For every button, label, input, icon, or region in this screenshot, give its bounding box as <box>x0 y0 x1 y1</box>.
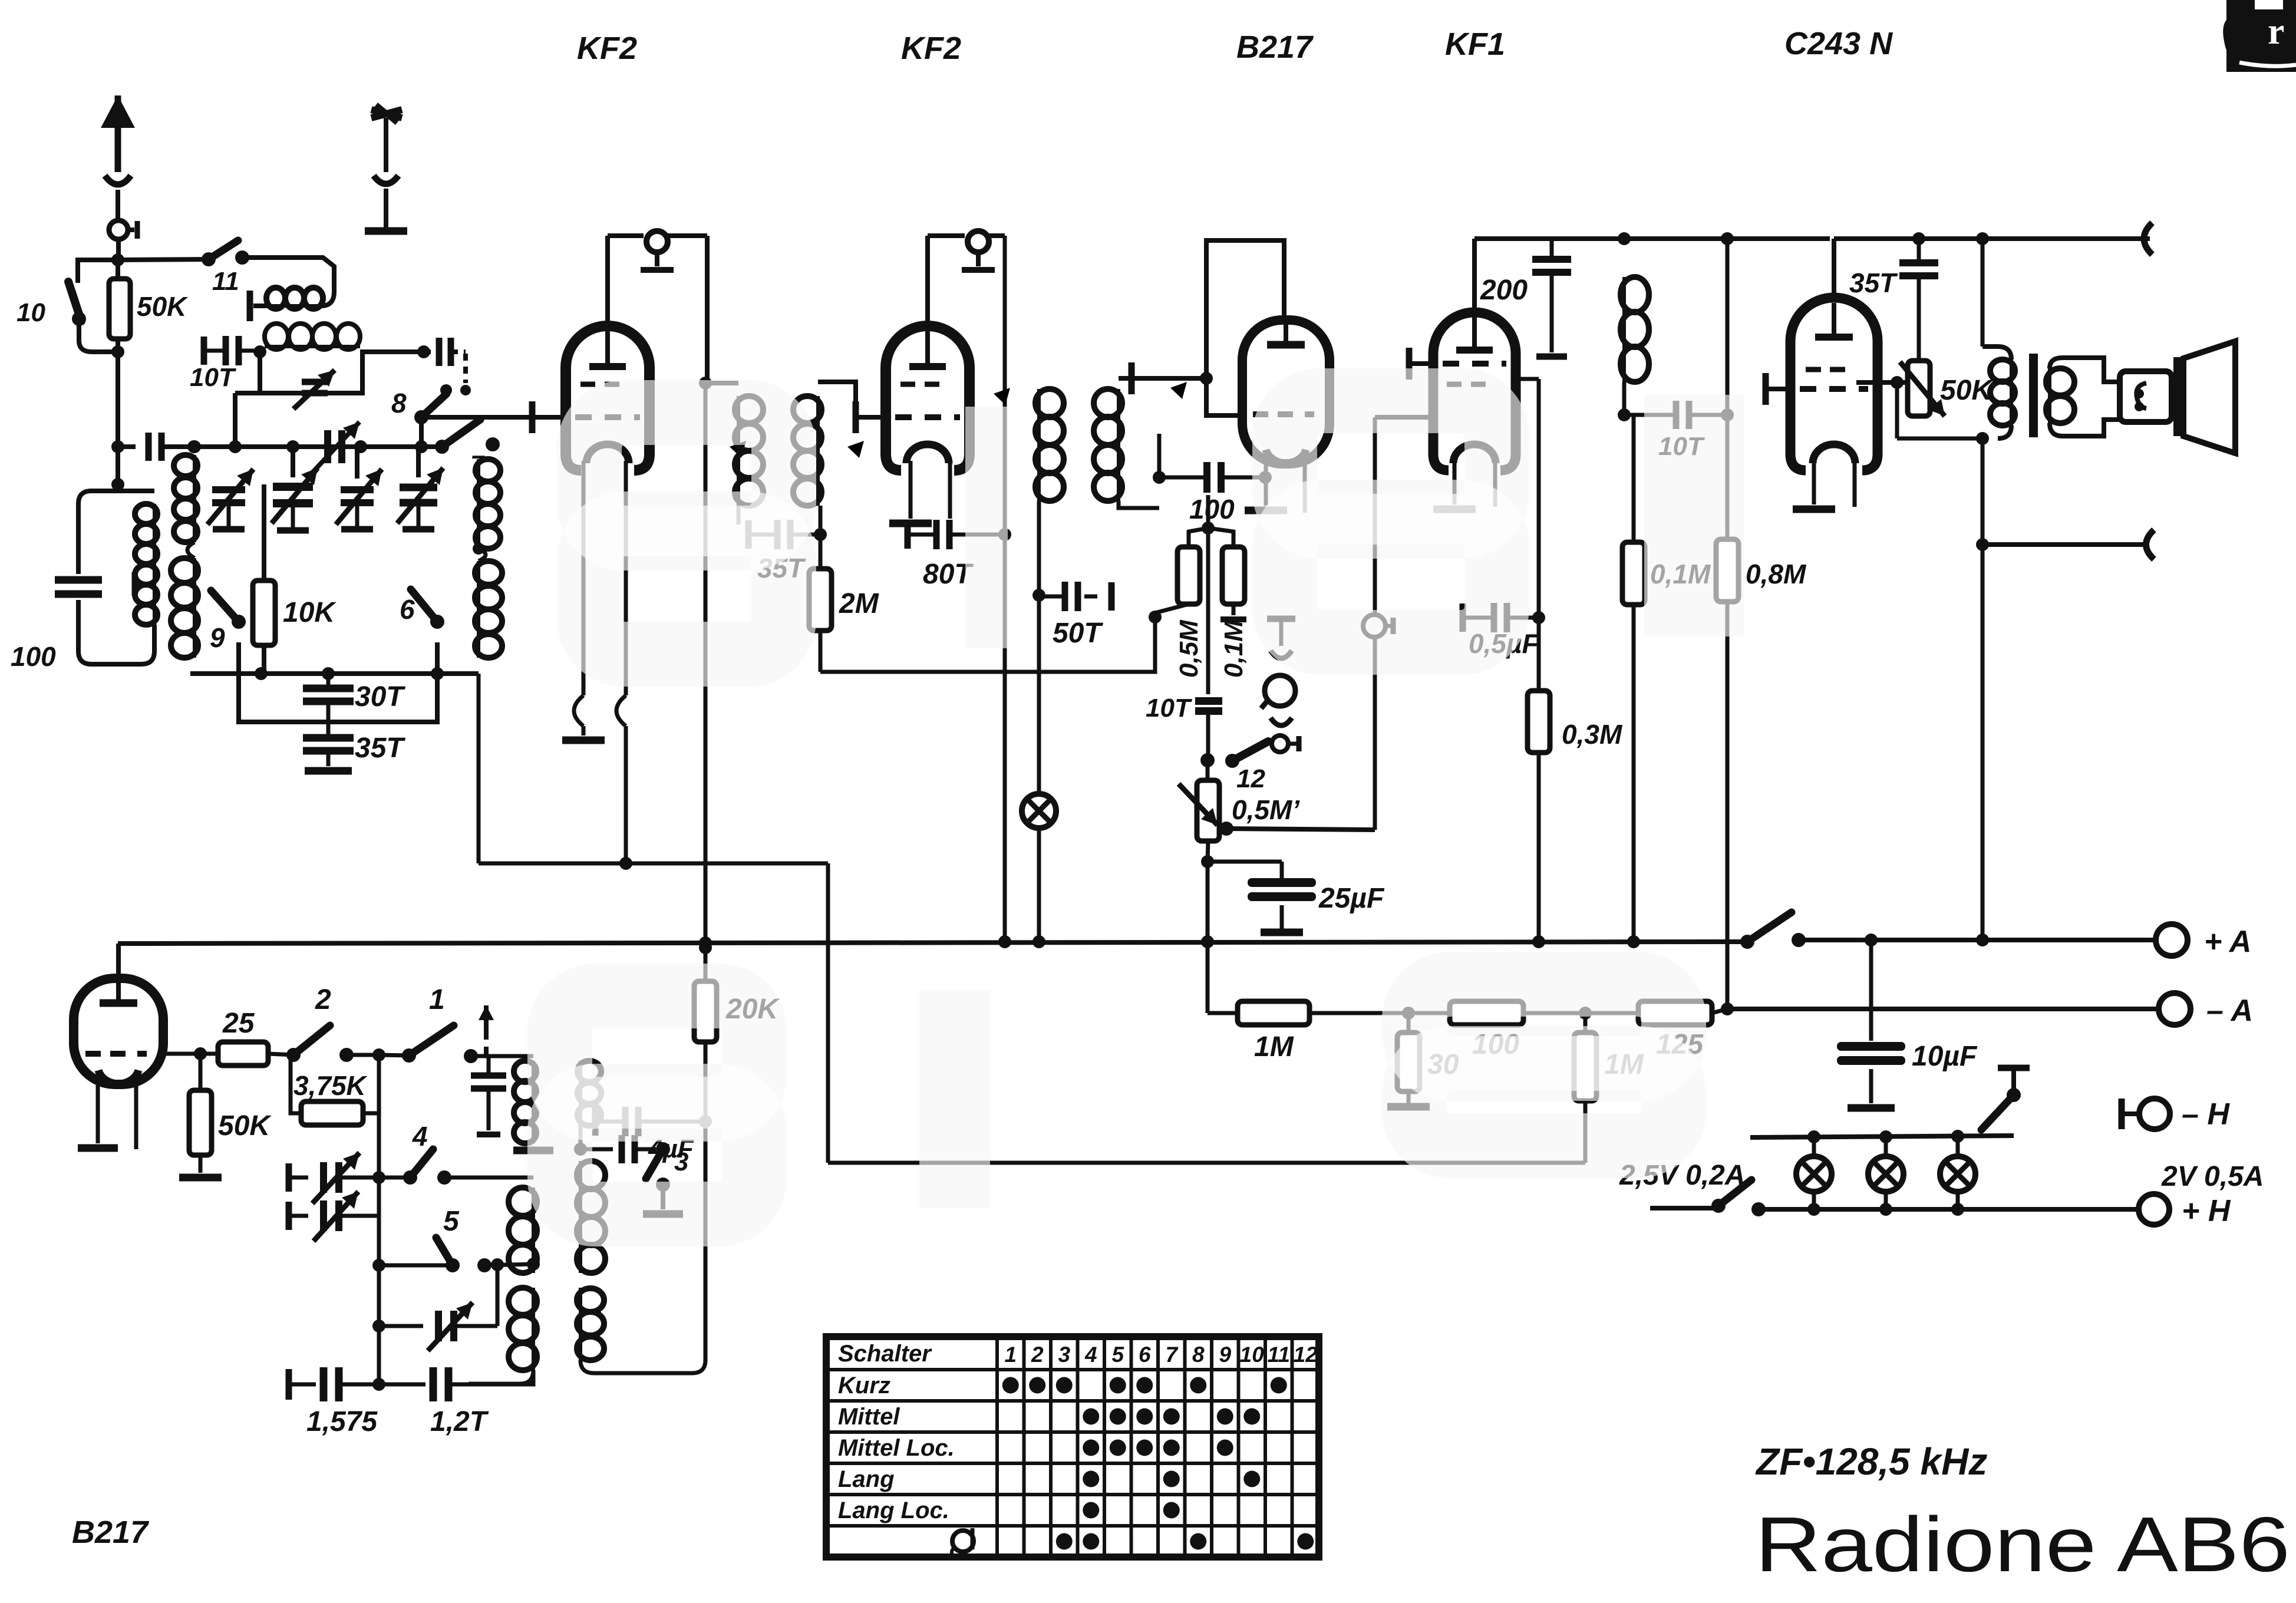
wire 10T junction drop <box>235 393 260 447</box>
IF2 trimmer right <box>1139 382 1187 434</box>
svg-text:Schalter: Schalter <box>838 1341 932 1367</box>
resistor 30 <box>1387 1013 1430 1107</box>
IF1 secondary coil <box>793 382 822 506</box>
capacitor 30T <box>303 674 354 722</box>
wire tube1 cap to IF1 <box>699 236 712 390</box>
svg-text:3,75K: 3,75K <box>293 1070 368 1101</box>
osc transformer right mid coil <box>577 1161 605 1273</box>
KF1 cathode pins <box>1433 461 1495 509</box>
tube B217 detector <box>1242 320 1330 464</box>
svg-text:11: 11 <box>1268 1343 1290 1367</box>
IF2 trimmer left <box>962 388 1010 440</box>
svg-text:35T: 35T <box>1849 268 1898 298</box>
capacitor 0,5uF <box>1463 603 1539 632</box>
osc transformer right low coil <box>577 1288 604 1373</box>
svg-text:0,3M: 0,3M <box>1562 719 1623 750</box>
wavetrap trimmer box <box>260 352 362 409</box>
switch 4 <box>379 1149 533 1185</box>
resistor 50K osc <box>179 1054 222 1177</box>
svg-text:9: 9 <box>210 622 225 653</box>
switch 11 <box>118 240 249 266</box>
wire IF2 primary to lamp rail <box>1037 595 1041 672</box>
IF1 primary coil <box>705 383 763 506</box>
terminal -H <box>2122 1099 2170 1129</box>
grid tbar tube1 <box>532 401 567 433</box>
svg-text:6: 6 <box>1139 1343 1151 1367</box>
wire IF1 secondary to tube2 grid <box>818 382 891 433</box>
osc transformer left mid coil <box>509 1188 540 1273</box>
node osc sec <box>574 1143 587 1156</box>
label 2M <box>839 588 879 619</box>
pilot lamp <box>1022 672 1056 942</box>
wire AVC line <box>479 674 828 1163</box>
svg-text:35T: 35T <box>355 733 405 764</box>
label 125 <box>1656 1029 1704 1060</box>
svg-text:KF2: KF2 <box>901 31 961 66</box>
osc tube legs <box>78 1080 136 1149</box>
svg-text:10: 10 <box>1240 1343 1265 1367</box>
svg-text:6: 6 <box>400 594 415 625</box>
svg-text:C243 N: C243 N <box>1784 26 1893 61</box>
wire 4uF tap <box>580 1122 595 1149</box>
right coil pair lower <box>473 543 502 658</box>
label 0,5M <box>1175 619 1203 678</box>
switch 12 <box>1200 741 1268 768</box>
switch 10 <box>68 260 118 352</box>
capacitor 4uF <box>595 1107 712 1136</box>
pilot lamps 2,5V <box>1796 1137 1975 1209</box>
label 35T <box>355 733 405 764</box>
node bus 497 <box>286 440 299 453</box>
svg-text:10K: 10K <box>283 597 337 628</box>
node bus 399 <box>229 440 242 453</box>
capacitor dashed coupling <box>424 338 471 395</box>
svg-text:10: 10 <box>17 298 45 327</box>
label 100 detector <box>1189 494 1235 525</box>
svg-text:3: 3 <box>674 1147 688 1176</box>
capacitor 80T <box>908 520 1001 549</box>
switch 5 <box>379 1238 533 1272</box>
node bus 329 <box>187 440 200 453</box>
wire +A bus right <box>1799 934 2156 946</box>
tube1 cathode pins <box>562 461 626 863</box>
wire IF2 secondary to B217 grid <box>1119 362 1213 394</box>
svg-text:Lang Loc.: Lang Loc. <box>838 1498 949 1523</box>
terminal -A <box>2159 993 2191 1025</box>
svg-text:50K: 50K <box>137 291 188 322</box>
svg-text:2: 2 <box>315 984 331 1015</box>
label 11 <box>212 267 239 296</box>
svg-text:2M: 2M <box>839 588 879 619</box>
KF1 inner dashes <box>1447 382 1486 387</box>
antenna tank tap <box>134 572 151 596</box>
svg-text:2: 2 <box>1031 1343 1044 1367</box>
wire switch9/6 loop <box>239 642 437 722</box>
B217 cathode pins <box>1245 454 1305 513</box>
antenna coupling jack <box>109 220 137 260</box>
svg-text:25: 25 <box>222 1008 255 1039</box>
svg-text:B217: B217 <box>1236 29 1314 65</box>
svg-text:8: 8 <box>391 388 407 418</box>
svg-text:3: 3 <box>1058 1343 1070 1367</box>
svg-text:10T: 10T <box>190 363 236 392</box>
capacitor osc block <box>471 1056 506 1134</box>
switch 6 <box>411 589 444 642</box>
wire osc to coil <box>471 1054 533 1058</box>
node 719 <box>417 345 430 358</box>
svg-text:5: 5 <box>1111 1343 1124 1367</box>
grid tbar C243N <box>1766 373 1792 405</box>
tube1 anode bar <box>589 331 626 367</box>
wire grid bus <box>194 444 442 449</box>
switch filament top <box>1981 1068 2030 1130</box>
wire C243N plate to pot <box>1856 376 1908 389</box>
svg-text:50K: 50K <box>218 1110 272 1142</box>
node wavetrap left <box>253 345 266 358</box>
svg-text:r: r <box>2268 10 2284 52</box>
switch 2 <box>286 1025 354 1062</box>
svg-text:Mittel: Mittel <box>838 1404 900 1430</box>
wire IF2 primary bottom <box>1032 501 1045 602</box>
svg-text:10µF: 10µF <box>1912 1041 1978 1072</box>
resistor 25 <box>200 1042 293 1066</box>
wire pot bottom rail <box>1897 382 1989 445</box>
svg-text:11: 11 <box>212 267 239 296</box>
resistor 50K antenna shunt <box>109 260 130 352</box>
node detector header <box>1202 495 1215 535</box>
label 35T output <box>1849 268 1898 298</box>
label 25 <box>222 1008 255 1039</box>
osc transformer right top coil <box>578 1061 601 1149</box>
potentiometer 0,5M volume <box>1179 760 1233 841</box>
node bus 715 <box>415 440 428 453</box>
label 30T <box>355 681 405 713</box>
svg-text:0,5M’: 0,5M’ <box>1232 794 1300 825</box>
label 0,8M <box>1746 559 1807 589</box>
switch 7 <box>435 420 500 454</box>
wire pot wiper out <box>1226 829 1375 830</box>
wire osc vertical <box>372 1055 385 1384</box>
wire output stage bus <box>1834 223 2152 255</box>
wire det out top <box>1375 415 1434 420</box>
capacitor 50T <box>1039 582 1111 611</box>
svg-text:ZF•128,5 kHz: ZF•128,5 kHz <box>1755 1440 1987 1483</box>
label +H <box>2182 1194 2231 1228</box>
resistor 100 bias <box>1408 1001 1585 1025</box>
svg-text:Radione AB6: Radione AB6 <box>1755 1501 2290 1588</box>
label 2V 0,5A <box>2161 1161 2264 1192</box>
tube2 inner dashes <box>900 382 939 387</box>
ground 35T <box>305 767 352 775</box>
terminal +H <box>2139 1194 2169 1225</box>
label 2 <box>315 984 331 1015</box>
potentiometer 50K tone <box>1900 361 1945 416</box>
ground terminal symbol Erde <box>365 105 407 231</box>
tube KF1 <box>1433 312 1516 470</box>
capacitor 35T <box>303 722 354 766</box>
svg-text:9: 9 <box>1219 1343 1231 1367</box>
tube2 cathode pins <box>889 461 950 523</box>
label 0,3M <box>1562 719 1623 750</box>
svg-text:1,2T: 1,2T <box>430 1406 489 1437</box>
svg-text:0,1M: 0,1M <box>1219 619 1248 678</box>
switch 8 <box>414 384 452 424</box>
resistor 2M <box>809 506 832 672</box>
svg-text:1: 1 <box>1004 1343 1017 1367</box>
antenna tank circuit frame <box>78 491 154 664</box>
node antenna junction <box>111 253 124 266</box>
wire +A bus <box>118 942 1747 944</box>
label KF2 (2nd IF tube) <box>901 31 961 66</box>
logo BTB top-right <box>2223 0 2296 72</box>
label C243N (output tube) <box>1784 26 1893 61</box>
svg-text:30T: 30T <box>355 681 405 713</box>
capacitor 100 detector <box>1159 462 1265 493</box>
label 1M vertical <box>1604 1049 1644 1080</box>
svg-text:100: 100 <box>1189 494 1235 525</box>
svg-text:1: 1 <box>429 984 445 1015</box>
svg-text:+ A: + A <box>2204 925 2251 959</box>
capacitor 10T wavetrap <box>204 336 258 365</box>
node tank top <box>111 478 124 491</box>
label 100 antenna <box>11 641 56 672</box>
RF coil lower left <box>171 542 198 674</box>
resistor 0,1M detector <box>1208 528 1246 619</box>
grid tbar KF1 <box>1409 348 1434 380</box>
svg-text:1M: 1M <box>1254 1031 1294 1063</box>
wavetrap coil <box>265 324 422 352</box>
wire osc grid <box>163 1047 207 1060</box>
wire detector divider <box>1206 528 1210 694</box>
capacitor 1,2T <box>379 1367 533 1401</box>
node osc 643 <box>347 1048 385 1061</box>
output transformer primary <box>1982 239 2015 438</box>
osc transformer left top coil <box>513 1061 553 1150</box>
label B217 bottom <box>72 1515 150 1550</box>
tube KF2 second <box>886 326 969 470</box>
capacitor 10uF <box>1837 940 1905 1108</box>
label 50K osc <box>218 1110 272 1142</box>
wire lamp rail bottom <box>1759 1203 1964 1216</box>
svg-text:50K: 50K <box>1940 375 1994 406</box>
svg-text:4: 4 <box>1084 1343 1097 1367</box>
resistor 1M bias <box>1208 1001 1408 1025</box>
resistor 0,3M <box>1528 618 1550 942</box>
switch position table Schalter <box>826 1337 1319 1557</box>
wire KF1 screen drop <box>1519 379 1545 624</box>
label 200 <box>1480 275 1528 306</box>
label 12 <box>1236 764 1265 793</box>
label 1,2T <box>430 1406 489 1437</box>
node -A junction <box>1721 1002 1734 1015</box>
node bus dots <box>699 935 1640 949</box>
wire switch8 to tube KF2 grid <box>421 417 530 447</box>
label 1M bias <box>1254 1031 1294 1063</box>
grid cap tube1 <box>608 231 707 321</box>
label 0,1M KF1 <box>1650 559 1711 589</box>
svg-text:10T: 10T <box>1146 694 1192 723</box>
capacitor antenna series <box>111 433 194 461</box>
antenna coupling coil loop <box>242 258 334 321</box>
terminal +A <box>2156 924 2188 956</box>
label +A <box>2204 925 2251 959</box>
trimmer padder 1 <box>289 1153 385 1203</box>
capacitor 100 antenna tank <box>55 580 102 594</box>
trimmer padder 2 <box>289 1192 379 1241</box>
wire C243N top <box>1830 239 1834 295</box>
resistor 1M vertical <box>1574 1013 1596 1163</box>
tube2 anode bar <box>909 331 946 367</box>
IF1 trimmer right <box>816 441 864 493</box>
wire det out vertical <box>1363 417 1393 830</box>
output transformer core <box>2029 354 2038 437</box>
svg-text:0,5M: 0,5M <box>1175 619 1203 678</box>
label 10K <box>283 597 337 628</box>
label 8 <box>391 388 407 418</box>
resistor 0,1M KF1 <box>1622 415 1645 942</box>
svg-text:7: 7 <box>1165 1343 1179 1367</box>
label 0,5uF <box>1469 628 1539 659</box>
resistor 0,8M <box>1716 239 1739 1009</box>
capacitor 35T output <box>1899 239 1938 361</box>
capacitor 1,575 <box>289 1367 385 1401</box>
capacitor switch3 <box>580 1135 656 1163</box>
C243N anode bar <box>1815 303 1853 337</box>
right coil pair upper <box>476 447 500 549</box>
label 1 <box>429 984 445 1015</box>
grid cap tube2 <box>928 231 1005 321</box>
node bias 30 <box>1402 1007 1415 1020</box>
switch 9 <box>211 591 246 642</box>
dashed arrow up <box>479 1005 494 1056</box>
resistor 0,5M detector <box>1177 528 1208 604</box>
antenna tank coil <box>118 491 157 625</box>
wire tube2 plate drop <box>998 236 1011 672</box>
resistor 20K <box>694 981 717 1122</box>
KF1 plate coil <box>1618 239 1649 421</box>
svg-text:KF1: KF1 <box>1445 27 1505 62</box>
output transformer secondary <box>2046 358 2120 436</box>
label 5 <box>443 1206 460 1237</box>
wire lamp branch left <box>1003 672 1007 942</box>
svg-text:25µF: 25µF <box>1318 883 1385 914</box>
label 9 <box>210 622 225 653</box>
label 25uF <box>1318 883 1385 914</box>
label 50K <box>137 291 188 322</box>
svg-text:– H: – H <box>2182 1097 2230 1132</box>
label 4uF <box>648 1134 694 1163</box>
antenna symbol <box>101 95 135 221</box>
svg-text:– A: – A <box>2206 994 2253 1028</box>
label 80T <box>923 559 974 590</box>
svg-text:Lang: Lang <box>838 1466 895 1492</box>
label 0,1M det <box>1219 619 1248 678</box>
label 4 <box>412 1121 428 1152</box>
wire IF2 sec bottom to 100 cap <box>1119 434 1166 508</box>
tube KF2 first <box>566 326 649 470</box>
wire tube1 pin to 20K <box>704 383 708 981</box>
wire B217 grid loop <box>1206 240 1284 415</box>
svg-text:8: 8 <box>1192 1343 1205 1367</box>
wire AVC return <box>828 1161 1585 1165</box>
C243N inner dashes <box>1806 367 1845 372</box>
wire pot to bias row <box>1206 862 1210 1013</box>
resistor 125 <box>1585 1001 1727 1025</box>
svg-text:+ H: + H <box>2182 1194 2231 1228</box>
capacitor 25uF <box>1208 862 1316 932</box>
wire KF1 top bus <box>1474 232 1830 309</box>
svg-text:100: 100 <box>11 641 56 672</box>
title Radione AB6 <box>1755 1501 2290 1588</box>
label 10T det <box>1146 694 1192 723</box>
label 0,5M pot <box>1232 794 1300 825</box>
label 50T <box>1053 618 1103 649</box>
label 30 <box>1427 1049 1459 1080</box>
label 1,575 <box>306 1406 378 1437</box>
osc transformer left low coil <box>469 1288 537 1384</box>
label 10uF <box>1912 1041 1978 1072</box>
capacitor 35T IF1 <box>738 506 827 549</box>
label 3,75K <box>293 1070 368 1101</box>
label 10T KF1 <box>1658 432 1705 461</box>
svg-text:5: 5 <box>443 1206 460 1237</box>
svg-text:1,575: 1,575 <box>306 1406 378 1437</box>
label B217 (detector tube) <box>1236 29 1314 65</box>
speaker <box>2120 341 2235 453</box>
resistor 3,75K <box>291 1055 379 1125</box>
label 20K <box>725 994 780 1025</box>
wire lamp rail top <box>1750 1130 2014 1143</box>
label 6 <box>400 594 415 625</box>
capacitor 10T KF1 <box>1624 401 1734 429</box>
RF coil upper left <box>174 440 201 542</box>
trimmer cap antenna 1 <box>207 447 253 529</box>
label 100 bias <box>1472 1029 1519 1060</box>
wire 0,5M bottom to AVC <box>820 604 1189 672</box>
wire headphone tap <box>1982 530 2154 559</box>
label ZF=128,5 kHz <box>1755 1440 1987 1483</box>
svg-text:50T: 50T <box>1053 618 1103 649</box>
wire antenna down <box>116 352 120 491</box>
label 10T <box>190 363 236 392</box>
label 2,5V 0,2A <box>1619 1160 1745 1191</box>
IF2 primary coil <box>1005 377 1064 501</box>
KF1 anode bar <box>1456 317 1493 350</box>
trimmer osc inner <box>379 1265 497 1351</box>
wire osc top cap to bus <box>116 944 121 978</box>
variable cap oscillator series <box>311 422 359 474</box>
wire to +H <box>1958 1207 2139 1212</box>
svg-text:B217: B217 <box>72 1515 150 1550</box>
trimmer cap osc 3 <box>336 447 382 529</box>
label 7 <box>470 450 485 478</box>
headphone jack <box>1261 619 1299 752</box>
wire tank bottom bus <box>190 667 479 680</box>
svg-text:KF2: KF2 <box>577 31 637 66</box>
trimmer cap antenna 2 <box>272 447 318 530</box>
switch +A <box>1740 912 1806 949</box>
wire 20K down <box>594 1122 705 1373</box>
label KF2 (1st IF tube) <box>577 31 637 66</box>
node bus 612 <box>354 440 367 453</box>
IF1 trimmer left <box>698 441 746 493</box>
label 10 <box>17 298 45 327</box>
svg-text:4: 4 <box>412 1121 428 1152</box>
label 50K tone <box>1940 375 1994 406</box>
switch 3 <box>643 1142 683 1214</box>
IF2 secondary coil <box>1094 378 1122 501</box>
trimmer cap osc 4 <box>397 447 443 529</box>
